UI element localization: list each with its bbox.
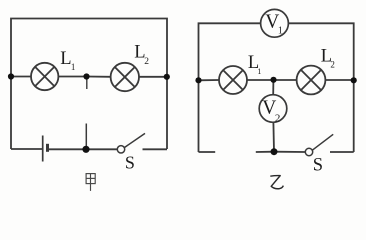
wire bottom node to switch (right circuit) [274, 151, 305, 153]
wire left-circuit middle row left [11, 76, 31, 78]
svg-text:1: 1 [71, 62, 76, 72]
label V1 inside voltmeter [265, 11, 283, 36]
svg-text:S: S [125, 153, 135, 173]
wire middle row left (right circuit) [199, 79, 220, 81]
wire L2 to right wire (right circuit) [325, 79, 353, 81]
voltmeter V2 [259, 95, 287, 123]
wire left-circuit top [11, 19, 167, 150]
wire bottom-left to battery [11, 148, 43, 150]
lamp L2 (right circuit) [297, 66, 326, 95]
node right-wire/middle row (left circuit) [164, 74, 170, 80]
label V2 inside voltmeter [262, 98, 280, 125]
node mid of middle row / V2 tap (right circuit) [270, 77, 276, 83]
wire mid node to L2 (right circuit) [274, 79, 297, 81]
svg-text:2: 2 [275, 113, 281, 125]
wire mid node down to V2 [272, 80, 274, 95]
label L1 (left circuit) [60, 49, 75, 72]
label L1 (right circuit) [248, 53, 262, 76]
svg-text:2: 2 [144, 57, 149, 67]
wire mid node to L2 [87, 76, 111, 78]
wire L1 to mid node (right circuit) [247, 79, 274, 81]
wire switch to bottom-right corner (right circuit) [330, 151, 354, 153]
svg-text:S: S [313, 155, 323, 175]
node bottom wire / V2 (right circuit) [271, 148, 278, 155]
voltmeter V1 [261, 9, 289, 37]
label jia (left circuit caption) [86, 174, 95, 191]
label L2 (right circuit) [321, 46, 335, 69]
svg-text:1: 1 [257, 67, 261, 76]
stub above bottom node [85, 124, 87, 150]
node left-wire/middle row (right circuit) [195, 77, 201, 83]
wire right-circuit top-left to V1 [199, 23, 261, 152]
node left-wire/middle row (left circuit) [8, 73, 14, 79]
node right-wire/middle row (right circuit) [351, 77, 357, 83]
battery (left circuit) [43, 136, 48, 162]
svg-text:1: 1 [278, 25, 283, 36]
wire V2 to bottom node [272, 122, 275, 151]
label L2 (left circuit) [134, 42, 149, 66]
wire switch to bottom-right corner [143, 148, 168, 150]
lamp L2 (left circuit) [111, 63, 139, 91]
wire L1 to mid node [58, 76, 86, 78]
lamp L1 (left circuit) [31, 63, 58, 90]
stub below mid node [86, 77, 88, 90]
lamp L1 (right circuit) [219, 66, 247, 94]
wire V1 to top-right corner [288, 23, 353, 152]
svg-text:2: 2 [330, 59, 335, 69]
wire battery-gap right segment to bottom node [256, 151, 274, 153]
wire L2 to right wire [139, 76, 167, 78]
node bottom wire (left circuit) [82, 146, 89, 153]
wire bottom-left stub (right circuit) [199, 151, 216, 153]
label yi (right circuit caption) [270, 176, 283, 189]
wire battery to bottom node [48, 148, 87, 150]
switch S (right circuit) [305, 134, 333, 155]
switch S (left circuit) [117, 133, 145, 153]
node mid of middle row (left circuit) [83, 73, 89, 79]
wire bottom node to switch [86, 148, 117, 150]
